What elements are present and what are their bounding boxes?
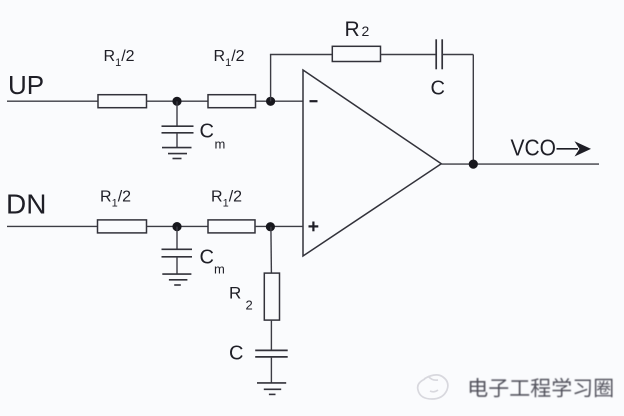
wire feedback vertical left [270,55,272,102]
wire [147,225,209,227]
resistor R1/2 (UP right) [208,95,256,108]
svg-text:C: C [431,77,445,99]
svg-text:C: C [229,342,243,364]
resistor R2 (feedback) [332,46,380,61]
junction [172,222,181,231]
svg-text:m: m [215,137,226,152]
capacitor Cm (UP) [162,126,194,133]
resistor R2 (lower, vertical) [264,273,279,320]
svg-text:UP: UP [8,70,44,100]
svg-text:R: R [229,284,241,303]
capacitor C (feedback) [436,39,442,69]
ground (DN Cm) [162,274,191,285]
resistor R1/2 (DN left) [98,220,147,233]
junction node A [172,97,181,106]
svg-text:2: 2 [246,298,253,313]
wire [381,54,437,56]
wire Cm drop (DN) [176,227,178,250]
junction noninverting input [266,222,275,231]
wire Cm drop (UP) [176,101,178,126]
svg-text:VCO: VCO [511,135,557,161]
wire [255,225,303,227]
svg-text:R: R [345,18,360,41]
watermark logo [418,375,448,399]
capacitor Cm (DN) [162,249,193,256]
watermark text 电子工程学习圈 [470,378,613,398]
wire UP input [7,100,98,102]
svg-text:2: 2 [362,23,370,39]
junction output node [469,160,478,169]
svg-text:C: C [200,247,214,269]
svg-text:DN: DN [6,189,46,220]
wire [176,257,178,274]
wire [256,100,303,102]
wire [176,133,178,148]
wire [442,54,473,56]
op-amp U1 [303,70,441,256]
resistor R1/2 (UP left) [98,95,147,108]
wire output [441,163,599,165]
wire [270,357,272,383]
wire [270,320,272,350]
svg-text:m: m [214,262,225,277]
op-amp plus input sign [309,222,319,232]
junction node B inverting input [266,97,275,106]
arrow to VCO [557,141,592,156]
capacitor C (lower) [255,350,288,357]
ground (lower C) [257,383,286,395]
op-amp minus input sign [310,100,318,102]
wire feedback vertical right [472,55,474,165]
resistor R1/2 (DN right) [208,220,255,233]
wire R2 lower drop [270,227,273,273]
wire feedback top [270,54,332,56]
wire [147,100,209,102]
ground (UP Cm) [162,148,192,159]
svg-text:C: C [200,121,214,143]
wire DN input [7,225,98,227]
